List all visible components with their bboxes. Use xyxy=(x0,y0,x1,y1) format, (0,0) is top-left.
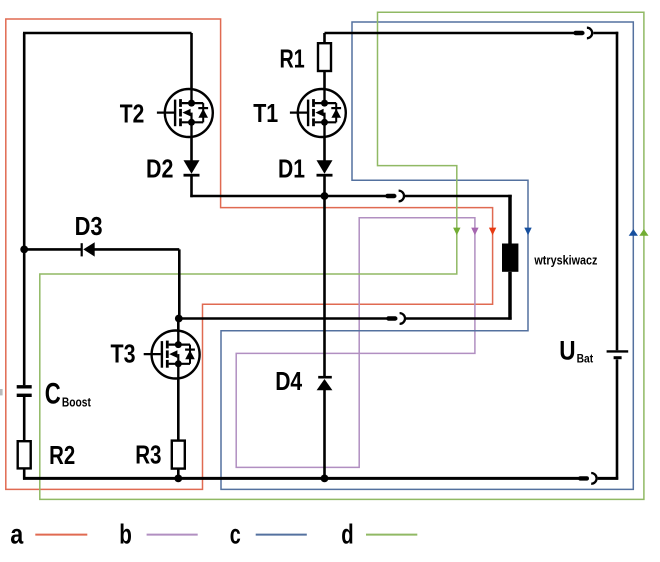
battery U Bat xyxy=(607,351,629,357)
svg-text:Bat: Bat xyxy=(577,353,594,365)
svg-text:T2: T2 xyxy=(120,99,145,129)
wire T1 source to D1 xyxy=(323,137,326,161)
wire top-right horizontal right part xyxy=(593,32,618,35)
wire top-right horizontal left part xyxy=(325,32,585,35)
capacitor C Boost xyxy=(17,387,32,396)
resistor R3 xyxy=(172,441,185,469)
wire D1 to node A xyxy=(323,176,326,196)
node D4 on ground bus xyxy=(321,475,329,483)
svg-text:T3: T3 xyxy=(111,338,136,368)
legend line c xyxy=(256,534,307,536)
wire T3 drain xyxy=(177,319,180,331)
current arrow loop d up xyxy=(639,229,648,236)
svg-text:C: C xyxy=(45,377,61,410)
svg-text:a: a xyxy=(10,518,23,549)
wire loop a (red) xyxy=(6,19,493,489)
wire top-left horizontal xyxy=(23,32,192,35)
wire mid rail y196 right part xyxy=(405,195,512,198)
wire lower rail y318 left part xyxy=(178,317,397,320)
connector on supply wire xyxy=(576,28,593,39)
wire left vertical (boost branch) xyxy=(23,33,26,385)
wire ground bus left part xyxy=(23,477,589,480)
current arrow loop b down xyxy=(471,228,478,236)
wire lower rail y318 right part xyxy=(406,317,512,320)
wire T3 source to R3 xyxy=(177,378,180,441)
wire loop c (blue) xyxy=(221,22,633,489)
wire loop b (purple) xyxy=(236,218,475,468)
wire D3 branch drop xyxy=(178,249,181,319)
wire injector drop xyxy=(508,195,512,244)
transistor T1 xyxy=(290,89,346,137)
svg-text:D2: D2 xyxy=(146,154,173,184)
svg-text:T1: T1 xyxy=(253,98,278,128)
wire capacitor to R2 xyxy=(23,397,26,441)
diode D4 xyxy=(317,377,333,390)
current arrow loop d down xyxy=(453,228,460,236)
svg-text:D4: D4 xyxy=(275,366,302,396)
wire mid rail y196 left part xyxy=(190,195,396,198)
diode D1 xyxy=(317,160,333,175)
svg-text:Boost: Boost xyxy=(62,395,92,409)
wire battery top vertical xyxy=(616,32,619,351)
wire battery bottom vertical xyxy=(616,359,619,479)
wire R1 to T1 xyxy=(323,71,326,89)
svg-text:c: c xyxy=(230,518,241,549)
current arrow loop a down xyxy=(489,228,496,236)
svg-text:wtryskiwacz: wtryskiwacz xyxy=(534,253,598,268)
svg-text:R3: R3 xyxy=(135,440,161,470)
current arrow loop c down xyxy=(524,228,531,236)
node R3 on ground bus xyxy=(174,475,182,483)
transistor T3 xyxy=(144,331,200,379)
svg-text:R1: R1 xyxy=(280,44,305,74)
svg-text:b: b xyxy=(119,518,132,549)
svg-text:D3: D3 xyxy=(75,211,103,241)
connector on ground bus xyxy=(580,473,596,484)
node at D3 tap on left branch xyxy=(20,246,28,254)
svg-text:d: d xyxy=(341,518,353,549)
injector coil xyxy=(502,244,518,272)
wire D2 to mid rail xyxy=(190,176,193,197)
wire T2 drain drop xyxy=(190,33,193,89)
diode D2 xyxy=(184,160,200,175)
diode D3 xyxy=(82,242,95,256)
wire D4 top xyxy=(323,196,326,376)
legend line a xyxy=(35,534,87,536)
resistor R2 xyxy=(18,441,31,468)
connector on lower rail xyxy=(388,313,405,324)
wire T2 source to D2 xyxy=(190,137,193,161)
connector on mid rail xyxy=(387,191,404,202)
svg-text:U: U xyxy=(559,336,575,366)
wire R2 to ground bus xyxy=(23,468,26,479)
legend line b xyxy=(147,534,198,536)
wire R3 to ground bus xyxy=(177,469,180,479)
current arrow loop c up xyxy=(629,229,638,236)
wire D3 cathode horizontal xyxy=(95,248,180,251)
svg-text:R2: R2 xyxy=(49,440,75,470)
wire injector to lower rail xyxy=(508,272,512,320)
resistor R1 xyxy=(318,43,331,71)
wire loop d (green) xyxy=(40,12,644,499)
wire ground bus right part xyxy=(598,477,619,480)
transistor T2 xyxy=(157,89,213,137)
wire D3 anode horizontal xyxy=(24,248,82,251)
label U Bat xyxy=(559,336,593,366)
wire R1 top xyxy=(323,33,326,43)
node at D3/T3 junction xyxy=(175,315,183,323)
svg-text:D1: D1 xyxy=(278,154,305,184)
node A mid rail xyxy=(321,192,329,200)
label C Boost xyxy=(45,377,92,410)
legend line d xyxy=(366,534,417,536)
wire D4 bottom xyxy=(323,390,326,479)
